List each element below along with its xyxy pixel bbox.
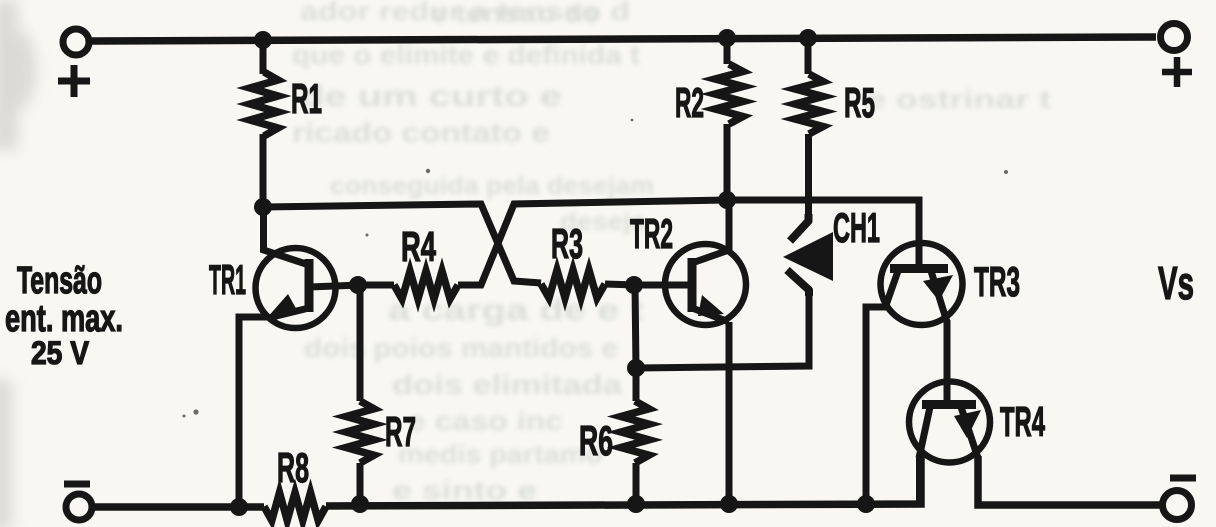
svg-text:e sinto e: e sinto e (392, 475, 537, 505)
svg-text:R1: R1 (291, 75, 322, 122)
label TR4 (1000, 398, 1045, 445)
wire R6 bottom lead (633, 463, 640, 505)
label - (input polarity) (64, 481, 90, 488)
resistor R2 (715, 64, 743, 124)
svg-text:TR2: TR2 (630, 210, 673, 257)
junction top rail / R5 (799, 29, 817, 47)
terminal + input (top-left) (63, 29, 89, 55)
svg-text:R2: R2 (675, 79, 704, 126)
svg-text:dois elimitada: dois elimitada (392, 369, 623, 400)
svg-text:a carga de e t: a carga de e t (388, 294, 644, 327)
CH1 upper contact hook (790, 214, 809, 241)
wire R6 top lead (633, 368, 640, 401)
svg-text:TR4: TR4 (1000, 398, 1045, 445)
wire TR3 emitter to TR4 base (944, 320, 951, 406)
label - (output polarity) (1170, 475, 1196, 482)
TR1 base bar (305, 259, 314, 312)
svg-text:R3: R3 (551, 220, 583, 267)
svg-text:conseguida pela desejam: conseguida pela desejam (330, 172, 654, 200)
wire R1 bottom lead (260, 134, 267, 210)
wire TR1 base lead (309, 285, 360, 287)
wire R5 bottom lead (805, 134, 812, 222)
TR4 emitter arrow (954, 410, 981, 438)
resistor R4 (394, 271, 458, 299)
wire TR2 base lead (634, 282, 692, 289)
wire top positive rail (89, 37, 1156, 41)
TR2 emitter arrow (698, 295, 724, 316)
svg-text:e caso inc: e caso inc (408, 406, 563, 436)
label + (input polarity) (58, 65, 90, 97)
svg-text:CH1: CH1 (833, 204, 880, 251)
wire TR2 base node down to R6 node (635, 285, 636, 368)
wire R7 top lead (357, 285, 364, 401)
junction bottom rail / TR1 emitter (230, 498, 248, 516)
label Vs (output voltage) (1158, 257, 1194, 309)
svg-text:dois poios mantidos e: dois poios mantidos e (304, 333, 618, 363)
wire bottom rail mid segment (326, 456, 921, 506)
wire R3 to TR2 base (605, 284, 636, 285)
junction bottom rail / R6 (627, 495, 645, 513)
label R8 (277, 444, 309, 491)
wire R7 bottom lead (357, 463, 364, 505)
wire CH1 to R6 node (636, 292, 809, 368)
svg-text:Tensão: Tensão (17, 260, 102, 302)
svg-text:25 V: 25 V (31, 335, 90, 371)
transistor TR2 body (665, 244, 746, 325)
wire TR2 emitter lead (726, 322, 733, 505)
wire R1 top lead (260, 38, 267, 74)
TR2 emitter stroke (692, 308, 729, 322)
label R3 (551, 220, 583, 267)
TR1 collector stroke and lead (264, 207, 310, 265)
label R7 (385, 408, 416, 455)
junction bottom rail / R7 (351, 495, 369, 513)
label R5 (844, 79, 875, 126)
junction R2 / TR2 collector / TR3 base line (718, 191, 736, 209)
junction top rail / R2 (718, 29, 736, 47)
label CH1 (833, 204, 880, 251)
wire TR3 collector lead (866, 307, 886, 505)
svg-text:ricado contato e: ricado contato e (292, 117, 550, 148)
svg-text:de um curto e: de um curto e (300, 80, 562, 113)
svg-text:R6: R6 (579, 417, 613, 464)
svg-text:TR3: TR3 (974, 258, 1020, 305)
junction R1 / cross-coupling line (254, 198, 272, 216)
resistor R6 (621, 401, 649, 463)
TR2 base bar (688, 258, 697, 312)
TR3 emitter stroke (931, 271, 947, 322)
wire R2 top lead (724, 38, 731, 64)
TR4 base bar (922, 400, 976, 409)
resistor R8 (264, 493, 326, 521)
wire bottom rail left segment (94, 503, 264, 511)
wire R2 bottom lead (724, 124, 731, 202)
TR2 collector stroke and lead (692, 200, 729, 263)
junction top rail / R1 (254, 31, 272, 49)
transistor TR3 body (881, 243, 963, 325)
label R1 (291, 75, 322, 122)
wire bottom rail right segment (TR4 emitter to output -) (978, 456, 1161, 505)
svg-text:que o elimite e definida: que o elimite e definida t (292, 40, 640, 70)
label R4 (401, 223, 436, 270)
TR1 emitter stroke (268, 308, 309, 318)
label R6 (579, 417, 613, 464)
label TR1 (209, 256, 246, 303)
terminal + output (top-right) (1161, 24, 1188, 51)
TR3 base bar (890, 264, 948, 273)
svg-text:R5: R5 (844, 79, 875, 126)
svg-text:R8: R8 (277, 444, 309, 491)
transistor TR4 body (909, 382, 990, 463)
terminal - output (bottom-right) (1163, 491, 1192, 520)
wire TR4 collector lead (916, 456, 923, 505)
wire R4 to TR2 collector node (crossing up then to TR3 base) (458, 200, 919, 285)
junction TR1 base / R4 / R7 (349, 276, 367, 294)
junction bottom rail / TR3 collector (857, 495, 875, 513)
resistor R7 (346, 401, 374, 463)
TR3 emitter arrow (923, 275, 953, 301)
CH1 arrow (783, 232, 833, 281)
junction bottom rail / TR2 emitter (720, 495, 738, 513)
svg-text:e tensao de: e tensao de (430, 0, 600, 28)
junction TR2 base / R3 / R6 (625, 276, 643, 294)
wire R5 top lead (805, 38, 812, 74)
TR4 collector stroke (919, 407, 930, 458)
label R2 (675, 79, 704, 126)
TR3 collector stroke (885, 271, 898, 308)
label Tensao ent. max. 25 V (input rating) (5, 260, 123, 371)
wire TR1 emitter lead (239, 317, 268, 505)
wire TR1 collector to R3 (upper-left then crossing down) (263, 204, 541, 283)
svg-text:R4: R4 (401, 223, 436, 270)
TR4 emitter stroke (961, 407, 978, 458)
CH1 lower contact hook (787, 270, 809, 296)
label TR2 (630, 210, 673, 257)
transistor TR1 body (256, 248, 336, 328)
resistor R1 (250, 72, 278, 136)
background paper show-through (decorative) (292, 0, 1051, 505)
svg-text:ent. max.: ent. max. (5, 298, 123, 340)
svg-text:medis partamo: medis partamo (398, 439, 603, 469)
junction R6 / CH1 line (627, 359, 645, 377)
svg-text:TR1: TR1 (209, 256, 246, 303)
terminal - input (bottom-left) (66, 494, 92, 520)
svg-text:R7: R7 (385, 408, 416, 455)
svg-text:Vs: Vs (1158, 257, 1194, 309)
label TR3 (974, 258, 1020, 305)
svg-text:e ostrinar t: e ostrinar t (866, 84, 1051, 114)
TR1 emitter arrow (266, 294, 298, 319)
resistor R3 (541, 270, 605, 298)
resistor R5 (795, 74, 823, 134)
label + (output polarity) (1162, 57, 1192, 87)
wire TR1 base to R4 (358, 282, 394, 289)
